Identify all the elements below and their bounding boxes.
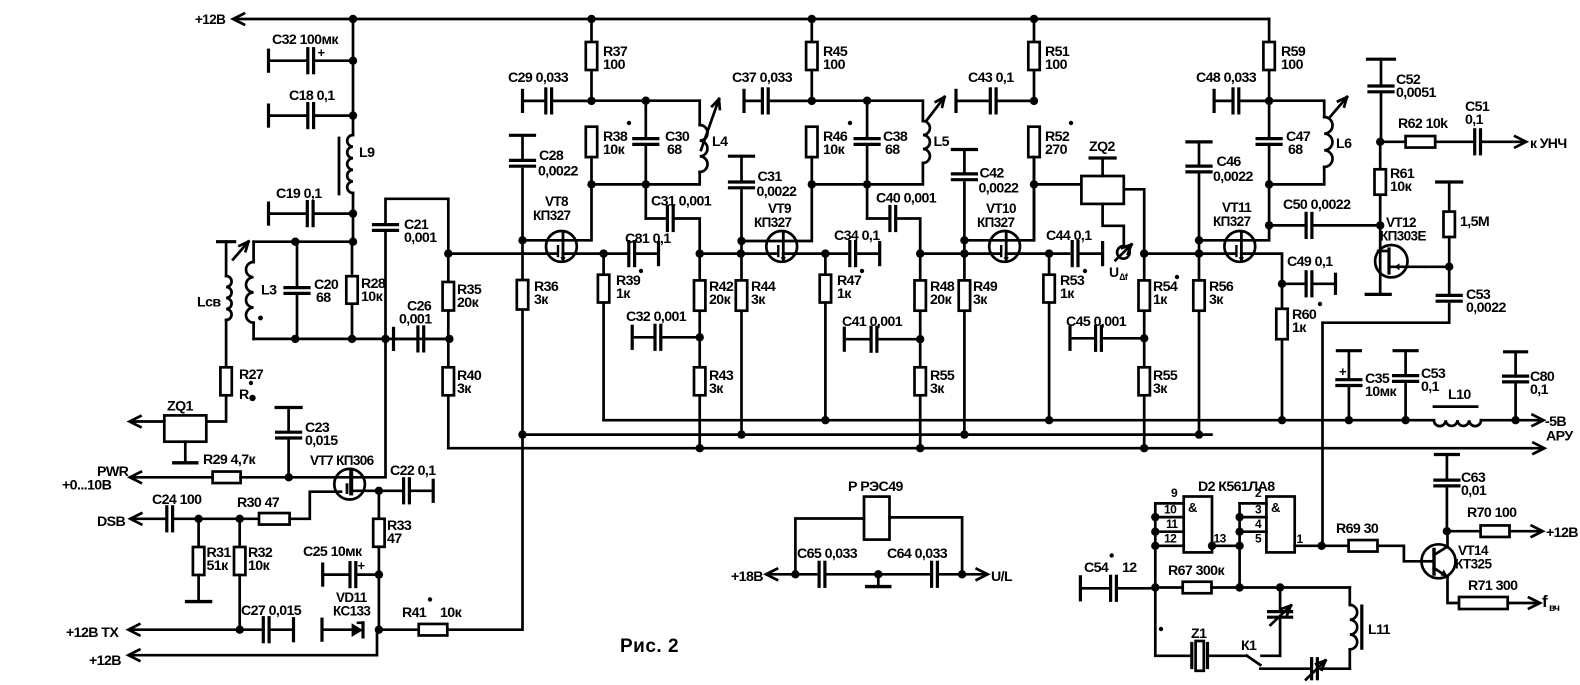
resistor R62 10k <box>1380 140 1405 143</box>
svg-text:100: 100 <box>603 57 626 73</box>
svg-text:+0...10В: +0...10В <box>62 478 112 494</box>
svg-text:R70 100: R70 100 <box>1467 505 1517 521</box>
wire L9 to tank <box>352 193 355 242</box>
resistor R43 3k <box>694 367 705 395</box>
resistor R71 300 <box>1459 597 1508 609</box>
resistor R39 1k <box>599 249 607 257</box>
ground center relay <box>877 574 880 586</box>
svg-text:51к: 51к <box>207 558 230 574</box>
crystal ZQ1 <box>164 415 206 441</box>
wire main row stage4 <box>1144 252 1235 255</box>
wire top feed column x353 <box>352 19 355 135</box>
svg-text:270: 270 <box>1045 142 1068 158</box>
wire VT8 drain line <box>523 184 592 240</box>
wire R56 column to bus2 <box>1198 254 1201 435</box>
resistor R46 10k <box>806 127 817 157</box>
svg-text:10к: 10к <box>823 142 846 158</box>
resistor R53 1k <box>1045 249 1053 257</box>
svg-text:1к: 1к <box>837 286 852 302</box>
svg-text:10к: 10к <box>440 605 463 621</box>
svg-text:С22 0,1: С22 0,1 <box>390 463 436 479</box>
resistor R37 100 <box>587 15 595 23</box>
svg-text:вч: вч <box>1549 603 1560 614</box>
svg-text:R71 300: R71 300 <box>1468 578 1518 594</box>
node tank1 bottom rail <box>254 338 450 341</box>
wire ZQ2 bottom to Udf <box>1103 204 1124 246</box>
svg-text:10к: 10к <box>361 289 384 305</box>
svg-text:3к: 3к <box>534 292 549 308</box>
svg-text:Рис. 2: Рис. 2 <box>620 636 679 657</box>
gate D2.1 output pin 13 <box>1212 544 1240 547</box>
resistor R41 10k <box>379 628 419 631</box>
svg-text:Р РЭС49: Р РЭС49 <box>848 479 903 495</box>
svg-text:1,5М: 1,5М <box>1460 214 1489 230</box>
svg-text:+: + <box>358 558 366 573</box>
ground below R31 <box>197 575 200 602</box>
capacitor C43 0,1 <box>954 90 957 111</box>
capacitor C52 0,0051 <box>1368 58 1395 61</box>
svg-text:&: & <box>1188 500 1197 515</box>
relay P RES49 <box>864 497 890 540</box>
wire ZQ1 left arrow <box>132 420 165 423</box>
svg-text:1к: 1к <box>1060 286 1075 302</box>
svg-text:1к: 1к <box>616 286 631 302</box>
capacitor C30 68 <box>644 101 647 139</box>
svg-text:12: 12 <box>1122 560 1137 576</box>
svg-text:С65 0,033: С65 0,033 <box>797 546 858 562</box>
svg-text:3к: 3к <box>1209 292 1224 308</box>
capacitor C54 12 <box>1079 577 1082 600</box>
wire VT11 source to R60 column <box>1241 254 1282 421</box>
svg-text:L9: L9 <box>359 145 375 161</box>
svg-text:С44 0,1: С44 0,1 <box>1046 228 1092 244</box>
svg-text:U: U <box>1109 264 1119 280</box>
svg-text:С24 100: С24 100 <box>152 492 202 508</box>
wire VT9 source row <box>783 252 847 255</box>
svg-text:R: R <box>239 387 249 403</box>
resistor R38 10k <box>586 127 597 157</box>
resistor R40 3k <box>447 339 450 448</box>
svg-text:12: 12 <box>1164 532 1177 546</box>
svg-text:VT7 КП306: VT7 КП306 <box>310 453 375 468</box>
capacitor C41 0,001 source bypass <box>843 328 846 350</box>
gate D2.1 input bus <box>1154 503 1157 587</box>
node tank1 top rail <box>254 240 353 243</box>
svg-text:47: 47 <box>387 531 402 547</box>
capacitor C32 0,001 source bypass <box>631 326 634 348</box>
svg-text:КП303Е: КП303Е <box>1380 229 1426 244</box>
ground below ZQ1 <box>184 442 187 463</box>
capacitor C40 0,001 tank output <box>866 184 869 218</box>
svg-text:С43 0,1: С43 0,1 <box>968 70 1014 86</box>
svg-text:К1: К1 <box>1241 638 1257 654</box>
svg-text:10мк: 10мк <box>1365 384 1397 400</box>
wire ZQ2 top tick <box>1101 158 1104 176</box>
gate D2.2 output pin 1 <box>1295 544 1322 547</box>
svg-text:0,1: 0,1 <box>1465 112 1484 128</box>
svg-text:R67 300к: R67 300к <box>1168 563 1225 579</box>
wire +12V right arrow <box>1510 530 1541 533</box>
svg-text:3к: 3к <box>930 381 945 397</box>
svg-text:100: 100 <box>1281 57 1304 73</box>
svg-text:L11: L11 <box>1368 622 1391 638</box>
svg-text:КП327: КП327 <box>754 215 792 230</box>
resistor R36 3k <box>517 280 528 310</box>
svg-text:3: 3 <box>1255 503 1262 517</box>
svg-text:0,015: 0,015 <box>305 433 338 449</box>
terminal Udf circle <box>1117 246 1130 259</box>
adjust arrow L5 <box>927 97 945 120</box>
svg-text:С42: С42 <box>980 166 1005 182</box>
capacitor C29 0,033 <box>521 90 524 111</box>
wire R69 to VT14 base <box>1378 546 1422 562</box>
svg-text:С54: С54 <box>1084 560 1109 576</box>
capacitor C81 0,1 <box>627 242 630 266</box>
svg-text:3к: 3к <box>709 381 724 397</box>
svg-text:0,0022: 0,0022 <box>757 184 798 200</box>
capacitor C21 0,001 <box>384 233 387 339</box>
svg-text:10к: 10к <box>603 142 626 158</box>
svg-text:+12В ТХ: +12В ТХ <box>66 625 119 641</box>
svg-text:68: 68 <box>1288 142 1303 158</box>
adjust arrow L6 <box>1330 97 1347 117</box>
svg-text:С37 0,033: С37 0,033 <box>732 70 793 86</box>
svg-text:С81 0,1: С81 0,1 <box>625 231 671 247</box>
varicap trimmer upper <box>1279 588 1282 612</box>
capacitor C46 0,0022 <box>1187 140 1211 143</box>
bus2 line <box>523 433 1212 436</box>
wire VT7 source row <box>351 489 400 492</box>
crystal ZQ2 <box>1034 183 1081 186</box>
capacitor C22 0,1 <box>402 479 405 503</box>
wire VT10 source row <box>1006 252 1069 255</box>
capacitor C53 0,1 bus <box>1394 349 1417 352</box>
svg-text:0,001: 0,001 <box>399 312 432 328</box>
wire ZQ2 right to main row <box>1124 189 1144 253</box>
svg-text:L4: L4 <box>712 134 728 150</box>
resistor R51 100 <box>1030 15 1038 23</box>
svg-text:+12В: +12В <box>195 12 226 27</box>
svg-text:к УНЧ: к УНЧ <box>1530 135 1567 151</box>
svg-text:20к: 20к <box>930 292 953 308</box>
wire VT10 drain line <box>964 157 1034 240</box>
coupling adjust arrow Lsv-L3 <box>233 242 249 260</box>
svg-text:0,0022: 0,0022 <box>1466 300 1507 316</box>
wire R27 to ZQ1 <box>206 395 226 421</box>
svg-text:L5: L5 <box>934 134 950 150</box>
svg-text:D2 К561ЛА8: D2 К561ЛА8 <box>1198 479 1275 495</box>
svg-text:VT11: VT11 <box>1222 200 1252 215</box>
resistor R70 100 <box>1447 530 1481 533</box>
svg-text:+: + <box>318 45 326 60</box>
inductor L11 <box>1348 588 1351 605</box>
inductor L6 <box>1324 117 1332 167</box>
wire VT11 drain line <box>1199 184 1269 240</box>
node tank4 rails VT11 <box>1269 101 1324 117</box>
svg-text:0,1: 0,1 <box>1530 382 1549 398</box>
resistor R52 270 <box>1028 127 1039 157</box>
svg-text:1к: 1к <box>1292 320 1307 336</box>
node tank3 rails VT9 <box>812 101 923 121</box>
svg-text:0,001: 0,001 <box>404 230 437 246</box>
svg-text:R69 30: R69 30 <box>1336 521 1379 537</box>
capacitor C27 0,015 <box>240 628 264 631</box>
svg-text:10: 10 <box>1164 503 1177 517</box>
svg-text:С32 100мк: С32 100мк <box>272 32 339 48</box>
capacitor C45 0,001 source bypass <box>1068 327 1071 349</box>
wire VT8 source row <box>563 252 627 255</box>
svg-text:КТ325: КТ325 <box>1455 557 1492 572</box>
svg-text:КС133: КС133 <box>333 604 371 619</box>
capacitor C51 0,1 <box>1435 140 1475 143</box>
capacitor C23 0,015 <box>276 406 301 409</box>
svg-text:С31: С31 <box>758 169 783 185</box>
svg-text:3к: 3к <box>751 292 766 308</box>
svg-text:L6: L6 <box>1336 136 1352 152</box>
svg-text:10к: 10к <box>1390 179 1413 195</box>
node stage3 column R54 <box>1140 249 1148 257</box>
resistor R60 1k <box>1276 309 1287 339</box>
wire C28 column to bus2 <box>521 240 524 434</box>
node stage2 output column R48 <box>916 249 924 257</box>
wire R44 column to bus2 <box>740 254 743 435</box>
capacitor C18 0,1 <box>267 105 270 126</box>
svg-text:С25 10мк: С25 10мк <box>303 544 363 560</box>
inductor L3 <box>252 242 255 262</box>
resistor R35 20k <box>444 249 452 257</box>
svg-text:R41: R41 <box>402 605 427 621</box>
node tank2 rails VT8 <box>592 101 700 125</box>
wire Z1 row <box>1155 588 1192 656</box>
svg-text:VT8: VT8 <box>545 194 569 209</box>
capacitor C38 68 <box>866 101 869 139</box>
svg-text:9: 9 <box>1171 486 1178 500</box>
svg-text:С45 0,001: С45 0,001 <box>1066 314 1127 330</box>
resistor R47 1k <box>821 249 829 257</box>
wire VT9 drain line <box>742 184 812 241</box>
wire oscillator top row <box>1240 586 1350 589</box>
wire bus1 to -5V arrow <box>1516 419 1542 422</box>
capacitor C63 0,01 <box>1435 453 1458 456</box>
resistor R67 300k <box>1183 582 1212 594</box>
svg-text:С29 0,033: С29 0,033 <box>508 70 569 86</box>
capacitor C80 0,1 <box>1505 350 1527 353</box>
capacitor C53 0,0022 <box>1448 267 1451 296</box>
resistor R31 51k <box>197 519 200 547</box>
svg-text:С48 0,033: С48 0,033 <box>1196 70 1257 86</box>
svg-text:0,0051: 0,0051 <box>1396 85 1437 101</box>
svg-text:3к: 3к <box>457 381 472 397</box>
resistor R45 100 <box>808 15 816 23</box>
node +12V top bus wire <box>235 18 1270 21</box>
svg-text:АРУ: АРУ <box>1546 429 1573 445</box>
svg-text:1: 1 <box>1297 532 1304 546</box>
svg-text:0,0022: 0,0022 <box>979 181 1020 197</box>
wire R30 to VT7 gate2 <box>290 492 341 519</box>
svg-text:10к: 10к <box>248 558 271 574</box>
svg-text:2: 2 <box>1255 486 1262 500</box>
svg-text:0,0022: 0,0022 <box>1213 169 1254 185</box>
capacitor C37 0,033 <box>742 90 745 111</box>
capacitor C26 0,001 <box>392 328 395 349</box>
svg-text:1к: 1к <box>1153 292 1168 308</box>
resistor R55 3k stage2 <box>915 367 926 395</box>
inductor L4 <box>700 125 708 172</box>
svg-text:13: 13 <box>1214 532 1227 546</box>
adjust arrow L4 <box>701 99 719 150</box>
inductor L9 <box>347 135 353 193</box>
wire U/L arrow <box>962 573 986 576</box>
wire main row stage3 <box>920 252 1000 255</box>
svg-text:VT10: VT10 <box>986 201 1016 216</box>
wire VT14 collector <box>1434 531 1448 555</box>
svg-text:Lсв: Lсв <box>197 295 221 311</box>
svg-text:68: 68 <box>316 290 331 306</box>
resistor R28 10k <box>351 242 354 339</box>
svg-text:11: 11 <box>1166 517 1178 531</box>
svg-text:R30 47: R30 47 <box>237 495 280 511</box>
wire VT7 drain to C21 column <box>351 339 385 477</box>
svg-text:С40 0,001: С40 0,001 <box>876 191 937 207</box>
svg-text:С18 0,1: С18 0,1 <box>289 88 335 104</box>
wire R32 to TX line <box>238 575 241 630</box>
svg-text:VT9: VT9 <box>768 201 791 216</box>
bus1 -5V line <box>604 419 1434 422</box>
capacitor C20 68 <box>296 242 299 288</box>
gate D2.1 body <box>1184 497 1212 553</box>
capacitor C50 0,0022 <box>1269 224 1306 227</box>
capacitor C42 0,0022 <box>952 148 976 151</box>
svg-text:0,1: 0,1 <box>1421 379 1440 395</box>
capacitor C31 0,001 tank output <box>644 184 647 218</box>
wire R41 to C28 column <box>447 435 522 630</box>
wire main row stage2 <box>700 252 778 255</box>
svg-text:0,0022: 0,0022 <box>538 164 579 180</box>
wire main row to VT8 gate <box>448 252 557 255</box>
svg-text:+: + <box>1339 364 1347 379</box>
resistor R49 3k <box>959 280 970 310</box>
svg-text:КП327: КП327 <box>977 215 1015 230</box>
resistor R32 10k <box>238 519 241 547</box>
capacitor C19 0,1 <box>267 203 270 224</box>
inductor L5 <box>923 121 930 163</box>
svg-text:КП327: КП327 <box>1213 214 1251 229</box>
inductor L10 <box>1434 420 1481 426</box>
capacitor C24 100 <box>165 507 168 531</box>
capacitor C28 0,0022 <box>511 134 535 137</box>
resistor R54 1k <box>1139 280 1150 310</box>
wire VT12 source node <box>1424 265 1449 268</box>
svg-text:20к: 20к <box>709 292 732 308</box>
wire f out arrow <box>1508 602 1538 605</box>
capacitor C31 0,0022 stage2 <box>730 155 754 158</box>
svg-text:КП327: КП327 <box>533 208 571 223</box>
svg-text:R27: R27 <box>239 367 264 383</box>
svg-text:DSB: DSB <box>97 514 126 530</box>
svg-text:С50 0,0022: С50 0,0022 <box>1283 197 1351 213</box>
svg-text:68: 68 <box>885 142 900 158</box>
resistor R33 47 <box>378 491 381 519</box>
capacitor C49 0,1 <box>1278 280 1286 288</box>
svg-text:3к: 3к <box>1153 381 1168 397</box>
resistor R48 20k <box>915 280 926 310</box>
svg-text:L3: L3 <box>261 283 277 299</box>
capacitor C64 0,033 <box>878 573 931 576</box>
trimmer capacitor lower <box>1260 667 1308 670</box>
wire relay left <box>795 519 864 575</box>
resistor R42 20k <box>694 280 705 310</box>
power +12V top-left arrow <box>233 14 244 25</box>
svg-text:С49 0,1: С49 0,1 <box>1287 254 1333 270</box>
resistor R30 47 <box>259 513 290 525</box>
svg-text:5: 5 <box>1255 532 1262 546</box>
resistor R61 10k <box>1379 142 1382 226</box>
capacitor C35 10mk <box>1337 349 1360 352</box>
svg-text:С19 0,1: С19 0,1 <box>276 186 322 202</box>
svg-text:68: 68 <box>667 142 682 158</box>
svg-text:20к: 20к <box>457 295 480 311</box>
svg-text:0,01: 0,01 <box>1461 483 1487 499</box>
capacitor C44 0,1 <box>1071 242 1074 266</box>
gate D2.2 input bus <box>1238 503 1241 587</box>
capacitor C47 68 <box>1268 101 1271 139</box>
wire VT14 emitter <box>1434 568 1448 577</box>
svg-text:С41 0,001: С41 0,001 <box>842 314 903 330</box>
svg-text:С34 0,1: С34 0,1 <box>834 228 880 244</box>
capacitor C48 0,033 <box>1212 90 1215 111</box>
gate D2.2 body <box>1266 497 1294 553</box>
svg-text:100: 100 <box>823 57 846 73</box>
svg-text:R62 10k: R62 10k <box>1398 116 1448 132</box>
svg-text:+12В: +12В <box>1546 525 1578 541</box>
svg-text:С28: С28 <box>539 148 564 164</box>
svg-text:100: 100 <box>1045 57 1068 73</box>
capacitor C25 10mk <box>321 564 324 585</box>
svg-text:Z1: Z1 <box>1191 626 1207 642</box>
resistor R55 3k stage3 <box>1139 367 1150 395</box>
resistor R56 3k <box>1193 280 1204 310</box>
svg-text:+18В: +18В <box>731 569 763 585</box>
svg-text:&: & <box>1271 500 1280 515</box>
svg-text:3к: 3к <box>973 292 988 308</box>
resistor R27 <box>220 367 231 395</box>
wire R49 column to bus2 <box>963 254 966 435</box>
capacitor C65 0,033 <box>817 562 820 586</box>
inductor Lsv coupling winding <box>218 240 235 243</box>
capacitor C34 0,1 <box>848 242 851 266</box>
resistor R69 30 <box>1322 544 1349 547</box>
gate D2.2 input pins 2-5 <box>1240 502 1267 505</box>
resistor 1,5M gate leak <box>1437 180 1462 183</box>
capacitor C32 100mk <box>267 50 270 71</box>
resistor R59 100 <box>1268 19 1271 101</box>
svg-text:С46: С46 <box>1217 154 1242 170</box>
svg-text:U/L: U/L <box>991 569 1013 585</box>
svg-text:С32 0,001: С32 0,001 <box>626 309 687 325</box>
bus3 ARU line <box>448 447 1542 450</box>
gate D2.1 input pins 9-12 <box>1155 502 1183 505</box>
resistor R29 4,7k <box>213 472 241 484</box>
svg-text:С27 0,015: С27 0,015 <box>241 603 302 619</box>
wire relay right <box>890 517 963 574</box>
svg-text:R29 4,7к: R29 4,7к <box>203 452 256 468</box>
resistor R44 3k <box>736 280 747 310</box>
svg-text:L10: L10 <box>1448 387 1471 403</box>
svg-text:С31 0,001: С31 0,001 <box>651 194 712 210</box>
svg-text:+12В: +12В <box>89 653 121 669</box>
svg-text:ZQ1: ZQ1 <box>167 399 194 415</box>
svg-text:С64 0,033: С64 0,033 <box>887 546 948 562</box>
